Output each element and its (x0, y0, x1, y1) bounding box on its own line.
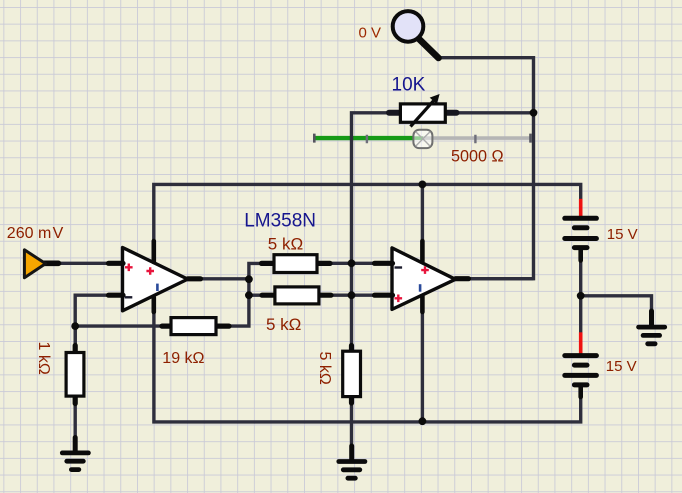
junction node A feedback (71, 322, 79, 330)
junction node op-amp1 output (245, 275, 253, 283)
potentiometer P1 slider end ticks (314, 134, 530, 143)
wire node A to R 19k left (75, 324, 165, 327)
wire op-amp1 output (200, 277, 249, 280)
wire source to op-amp1 +input (57, 262, 109, 265)
op-amp U1 pin V- (152, 298, 157, 313)
junction node pot-right / probe (530, 109, 538, 117)
svg-text:LM358N: LM358N (244, 211, 316, 232)
potentiometer P1 slider handle (413, 130, 432, 148)
svg-text:260 m V: 260 m V (7, 225, 64, 242)
wire potentiometer left terminal down to input node column (352, 113, 401, 347)
junction node output column / 5k2 row (245, 291, 253, 299)
potentiometer P1 slider track gray (314, 136, 530, 140)
resistor R3 19k (162, 318, 229, 335)
wire mid-battery node to right ground (581, 296, 652, 312)
op-amp U1 pin V+ (152, 241, 157, 262)
wire 5k number1 right to column node (329, 262, 352, 265)
wire column node to op-amp2 +input (352, 294, 377, 297)
wire 5k number2 right to column node (330, 294, 352, 297)
battery B1 15V (565, 199, 597, 261)
junction node bottom rail / op-amp2 V- (419, 417, 427, 425)
wire output node to 5k number2 left (249, 294, 263, 297)
ground G3 right (639, 311, 665, 344)
op-amp U2 marker - input (395, 266, 403, 268)
op-amp U1 marker V- bar (156, 284, 159, 291)
wire R 5k vertical bottom to ground (crosses bottom rail) (350, 402, 353, 447)
potentiometer P1 slider track green (314, 136, 414, 140)
resistor R1 5k horizontal top (262, 255, 331, 273)
wire top supply rail (op-amp1 V+ to battery1 +) (154, 184, 581, 244)
wire probe to op-amp2 output node (438, 58, 534, 279)
wire op-amp2 output to probe column (467, 277, 534, 280)
op-amp U1 pin -in (109, 293, 124, 298)
wire op-amp2 V+ drop from rail (421, 184, 424, 250)
wire R 1k bottom to ground (73, 402, 76, 438)
resistor R4 1k vertical (66, 346, 84, 404)
wire battery1 - to battery2 + (579, 260, 582, 333)
wire op-amp1 -input to feedback node A (75, 295, 109, 347)
op-amp U2 pin out (455, 276, 468, 281)
potentiometer P1 slider mid ticks (367, 135, 476, 144)
svg-text:5 kΩ: 5 kΩ (266, 315, 301, 334)
potentiometer P1 10K body (389, 94, 457, 127)
svg-text:15 V: 15 V (607, 226, 638, 243)
probe 0V circle (393, 11, 439, 58)
svg-text:19 kΩ: 19 kΩ (162, 350, 204, 367)
op-amp U1 marker V+ (146, 267, 154, 275)
op-amp U2 body (392, 248, 455, 310)
op-amp U1 body (123, 248, 188, 311)
op-amp U1 marker + input (125, 264, 133, 272)
ground G2 bottom-middle (339, 446, 365, 478)
op-amp U2 pin -in (375, 261, 393, 266)
junction node column / op-amp2 -in (348, 259, 356, 267)
op-amp U2 marker V- bar (419, 284, 422, 292)
svg-text:1 kΩ: 1 kΩ (35, 342, 52, 375)
op-amp U1 pin out (188, 276, 201, 281)
op-amp U1 pin +in (109, 261, 124, 266)
op-amp U2 pin V+ (420, 241, 425, 262)
svg-text:0 V: 0 V (359, 24, 382, 41)
svg-text:15 V: 15 V (606, 358, 637, 375)
op-amp U2 marker V+ (421, 266, 429, 274)
op-amp U2 pin V- (420, 296, 425, 312)
junction node mid-battery (577, 292, 585, 300)
wire potentiometer right terminal to probe column (445, 111, 533, 114)
junction node column / op-amp2 +in (348, 291, 356, 299)
junction node rail / op-amp2 V+ (419, 181, 427, 189)
ground G1 bottom-left (62, 438, 88, 470)
op-amp U2 marker + input (395, 295, 403, 303)
wire bottom supply rail (op-amp1 V- to battery2 -) (154, 312, 581, 422)
op-amp U1 marker - input (125, 296, 133, 298)
wire node A down to R 1k (73, 326, 76, 347)
wire op-amp2 V- down to bottom rail (421, 308, 424, 422)
source V1 input triangle (24, 250, 58, 278)
op-amp U2 pin +in (375, 293, 393, 298)
wire R 19k right up to 5k rows (222, 263, 263, 326)
battery B2 15V (565, 332, 597, 397)
svg-text:5 kΩ: 5 kΩ (268, 234, 303, 253)
svg-text:5 kΩ: 5 kΩ (316, 352, 333, 385)
wire column node to op-amp2 -input (352, 262, 377, 265)
resistor R5 5k vertical (343, 346, 361, 404)
svg-text:10K: 10K (392, 75, 426, 96)
resistor R2 5k horizontal bottom (262, 287, 331, 304)
svg-text:5000 Ω: 5000 Ω (451, 148, 504, 166)
